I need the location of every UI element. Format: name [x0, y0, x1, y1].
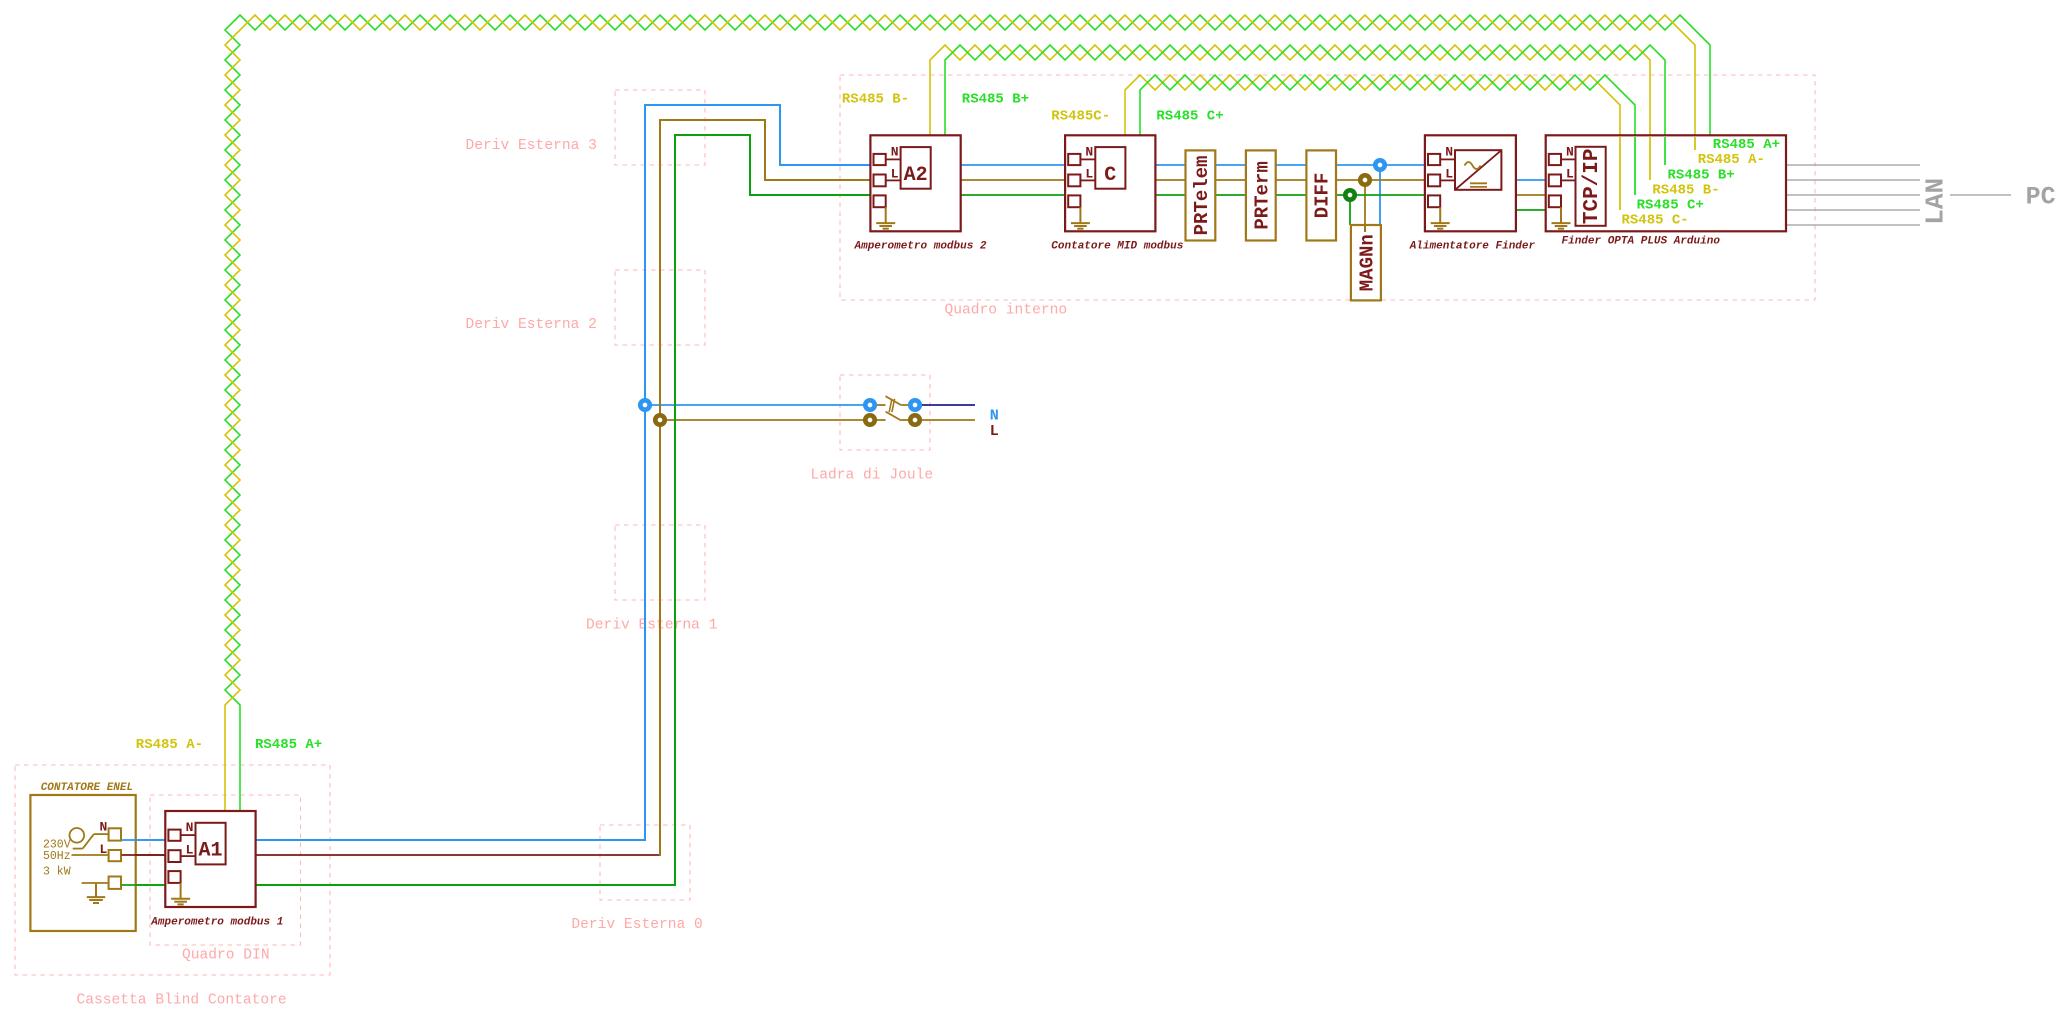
svg-text:Amperometro modbus 2: Amperometro modbus 2 [854, 241, 987, 253]
wire L brown: DIFF to Alimentatore [1336, 179, 1429, 181]
wire RS485 A- twisted pair (yellow) [225, 15, 1695, 812]
meter A1 Amperometro modbus 1 [165, 811, 255, 907]
AC/DC converter symbol [1455, 150, 1501, 190]
wire L inside ENEL to terminal [72, 854, 109, 856]
wire E green: Alimentatore out to OPTA [1516, 209, 1546, 211]
wire L maroon ENEL terminal to A1 [122, 854, 169, 856]
svg-text:N: N [1085, 144, 1093, 159]
wire E green drop to MAGNn [1349, 195, 1351, 225]
wire N blue: PRTerm to DIFF [1276, 164, 1307, 166]
wire L brown branch to Ladra switch [660, 419, 864, 421]
wire LAN to PC [1950, 194, 2011, 196]
switch stub right N [901, 404, 908, 406]
switch terminal N right [910, 400, 919, 409]
wire RS485 C+ drop inside OPTA [1634, 137, 1636, 195]
svg-text:Deriv Esterna 1: Deriv Esterna 1 [586, 618, 718, 634]
wire E green: A2 to C [961, 194, 1068, 196]
region box Quadro interno [840, 75, 1815, 300]
node L junction at Ladra branch [655, 415, 664, 424]
wire N blue: PRTelem to PRTerm [1215, 164, 1246, 166]
wire N blue branch to Ladra switch [645, 404, 864, 406]
svg-text:L: L [990, 423, 999, 440]
svg-text:L: L [891, 167, 899, 182]
wire RS485 A+ twisted pair (green) [225, 15, 1710, 812]
switch stub right L [901, 419, 908, 421]
switch blade N [886, 396, 902, 405]
switch terminal N left [865, 400, 874, 409]
wire N blue: DIFF to Alimentatore [1336, 164, 1429, 166]
pin L terminal [1549, 175, 1561, 187]
svg-text:RS485 C+: RS485 C+ [1156, 109, 1223, 125]
svg-text:DIFF: DIFF [1312, 173, 1334, 219]
pin PE terminal [1428, 195, 1440, 207]
wire E green: C to PRTelem [1155, 194, 1185, 196]
wire LAN line 5 [1786, 224, 1920, 226]
svg-text:L: L [1085, 167, 1093, 182]
svg-text:Finder OPTA PLUS Arduino: Finder OPTA PLUS Arduino [1562, 236, 1721, 248]
svg-text:N: N [891, 144, 899, 159]
breaker MAGNn [1351, 225, 1381, 300]
wire L maroon: A1 right to riser corner [256, 854, 662, 856]
wire N blue: Alimentatore out to OPTA [1516, 179, 1548, 181]
svg-text:CONTATORE ENEL: CONTATORE ENEL [41, 782, 133, 794]
wire L brown: Alimentatore out to OPTA [1516, 194, 1548, 196]
svg-text:LAN: LAN [1920, 178, 1950, 225]
region box Deriv Esterna 1 [615, 525, 705, 600]
source circle [70, 828, 85, 843]
controller Finder OPTA PLUS Arduino box [1546, 135, 1786, 231]
wire RS485 C- twisted pair (yellow) [1125, 75, 1620, 210]
wire N navy stub after switch [922, 404, 975, 406]
wire RS485 B+ drop inside OPTA [1664, 137, 1666, 165]
node E junction at MAGNn [1345, 190, 1354, 199]
region box Deriv Esterna 0 [600, 825, 690, 900]
svg-text:L: L [1445, 167, 1453, 182]
switch link bar 1 [889, 399, 892, 412]
wire L maroon: ENEL to A1 [122, 854, 169, 856]
node L junction at MAGNn [1360, 175, 1369, 184]
wire L brown stub after switch [922, 419, 975, 421]
pin PE terminal [1549, 195, 1561, 207]
wire L brown riser and top run into A2 [660, 120, 874, 856]
region box Deriv Esterna 3 [615, 90, 705, 165]
node N junction at MAGNn [1375, 160, 1384, 169]
svg-text:MAGNn: MAGNn [1356, 234, 1378, 291]
wire N blue drop to MAGNn [1379, 165, 1381, 225]
svg-text:N: N [186, 820, 194, 835]
svg-text:Quadro DIN: Quadro DIN [182, 948, 270, 964]
wire L olive inside ENEL [69, 854, 109, 856]
svg-text:Contatore MID modbus: Contatore MID modbus [1051, 241, 1183, 253]
svg-text:Deriv Esterna 0: Deriv Esterna 0 [571, 917, 702, 933]
wire N blue bus: A1 right, up, across, down into A2 [256, 105, 875, 840]
wire L brown: A2 to C [961, 179, 1068, 181]
meter CONTATORE ENEL box [30, 795, 135, 931]
svg-text:L: L [100, 842, 108, 857]
switch blade L [886, 412, 902, 421]
pin L terminal [1428, 175, 1440, 187]
node N junction at Ladra branch [640, 400, 649, 409]
svg-text:PC: PC [2026, 183, 2056, 212]
wire L brown drop to MAGNn [1364, 180, 1366, 232]
wire E green: DIFF to Alimentatore [1336, 194, 1429, 196]
wire RS485 C- drop inside OPTA [1619, 137, 1621, 210]
breaker DIFF [1306, 150, 1336, 240]
switch link bar 2 [892, 399, 895, 412]
switch terminal L left [865, 415, 874, 424]
svg-text:RS485 B+: RS485 B+ [1668, 167, 1735, 183]
svg-text:Ladra di Joule: Ladra di Joule [811, 467, 934, 483]
wire LAN line 3 [1786, 194, 1920, 196]
svg-text:TCP/IP: TCP/IP [1581, 148, 1604, 224]
wire E green: ENEL to A1 [122, 884, 169, 886]
wire L brown: PRTerm to DIFF [1276, 179, 1307, 181]
svg-text:A1: A1 [198, 840, 222, 863]
svg-text:Cassetta Blind Contatore: Cassetta Blind Contatore [77, 993, 287, 1009]
wire N blue ENEL terminal to A1 [122, 839, 169, 841]
wire LAN line 2 [1786, 179, 1920, 181]
wire N blue: ENEL to A1 [122, 839, 169, 841]
meter A2 Amperometro modbus 2 [870, 135, 960, 231]
pin L terminal ENEL [109, 850, 121, 861]
ground ENEL [95, 883, 97, 897]
svg-text:A2: A2 [904, 164, 928, 187]
pin PE terminal ENEL [109, 877, 121, 889]
svg-text:L: L [1566, 167, 1574, 182]
wire E green ENEL terminal to A1 [122, 884, 169, 886]
wire E green: PRTerm to DIFF [1276, 194, 1307, 196]
svg-text:N: N [100, 820, 108, 835]
svg-text:RS485 A+: RS485 A+ [1713, 137, 1780, 153]
region box Quadro DIN [150, 795, 301, 945]
wire LAN line 4 [1786, 209, 1920, 211]
power supply Alimentatore Finder box [1425, 135, 1516, 231]
wire N blue: A2 to Contatore C [961, 164, 1068, 166]
wire RS485 A- drop inside OPTA [1694, 137, 1696, 150]
region box Ladra di Joule [840, 375, 930, 450]
wire RS485 B- twisted pair (yellow) [930, 45, 1650, 180]
meter C Contatore MID modbus [1065, 135, 1155, 231]
svg-text:RS485 B-: RS485 B- [842, 91, 909, 107]
svg-text:L: L [186, 842, 194, 857]
wire L brown: C to PRTelem [1155, 179, 1185, 181]
wire RS485 B+ twisted pair (green) [945, 45, 1665, 165]
svg-text:Quadro interno: Quadro interno [945, 303, 1068, 319]
breaker PRTelem [1186, 150, 1216, 240]
wire RS485 C+ twisted pair (green) [1140, 75, 1635, 195]
region box Cassetta Blind Contatore [15, 765, 330, 975]
svg-text:3 kW: 3 kW [43, 866, 71, 879]
wire to ENEL ground [82, 882, 109, 884]
svg-text:PRTelem: PRTelem [1191, 156, 1213, 236]
wire E green: PRTelem to PRTerm [1215, 194, 1246, 196]
pin N terminal [1428, 154, 1440, 165]
pin N terminal ENEL [109, 828, 121, 840]
switch terminal L right [910, 415, 919, 424]
svg-text:Amperometro modbus 1: Amperometro modbus 1 [150, 917, 283, 929]
svg-text:Deriv Esterna 2: Deriv Esterna 2 [466, 317, 597, 333]
svg-text:N: N [1566, 144, 1574, 159]
svg-text:C: C [1104, 164, 1116, 187]
svg-text:PRTerm: PRTerm [1251, 161, 1273, 229]
svg-text:RS485 A+: RS485 A+ [255, 737, 322, 753]
svg-text:RS485 C+: RS485 C+ [1637, 198, 1704, 214]
svg-text:RS485 C-: RS485 C- [1622, 213, 1689, 229]
svg-text:RS485 A-: RS485 A- [1698, 152, 1765, 168]
wire N blue: C to PRTelem [1155, 164, 1185, 166]
ground Alimentatore [1439, 207, 1441, 222]
svg-text:RS485 A-: RS485 A- [136, 737, 203, 753]
switch blade inside ENEL [73, 848, 83, 850]
svg-text:RS485C-: RS485C- [1051, 109, 1110, 125]
svg-text:RS485 B-: RS485 B- [1652, 182, 1719, 198]
TCP/IP module [1576, 147, 1606, 226]
svg-text:50Hz: 50Hz [43, 850, 71, 863]
switch stub left N [877, 404, 886, 406]
switch stub left L [877, 419, 886, 421]
svg-text:Alimentatore Finder: Alimentatore Finder [1409, 241, 1536, 253]
region box Deriv Esterna 2 [615, 270, 705, 345]
wire L brown stub inside MAGNn [1364, 225, 1366, 232]
svg-text:N: N [1445, 144, 1453, 159]
breaker PRTerm [1246, 150, 1276, 240]
pin N terminal [1549, 154, 1561, 165]
wire RS485 B- drop inside OPTA [1649, 137, 1651, 180]
svg-text:Deriv Esterna 3: Deriv Esterna 3 [466, 138, 597, 154]
ground OPTA [1560, 207, 1562, 222]
wire L brown: PRTelem to PRTerm [1215, 179, 1246, 181]
wire LAN line 1 [1786, 164, 1920, 166]
svg-text:RS485 B+: RS485 B+ [962, 91, 1029, 107]
wire E green bus: A1 right, up, across, down into A2 [256, 135, 875, 885]
